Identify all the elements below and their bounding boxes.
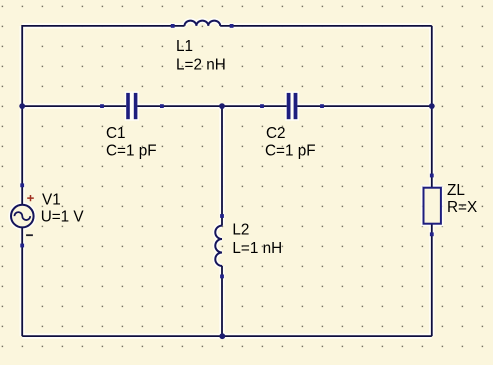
wire top (right of L1): [220, 25, 432, 27]
wire top (left of L1): [22, 25, 184, 27]
port ZL top: [430, 174, 434, 178]
svg-text:C1: C1: [106, 125, 126, 142]
svg-text:ZL: ZL: [447, 182, 465, 199]
wire bottom: [22, 335, 432, 337]
white halo under all strokes: [11, 21, 441, 337]
port C1 right: [160, 104, 164, 108]
inductor L2 coil: [215, 226, 222, 266]
wire middle (right of C2): [297, 105, 431, 107]
source V1 plus sign: [27, 195, 34, 201]
junction node right-middle: [429, 103, 435, 109]
wire center vertical (above L2): [221, 106, 223, 226]
port L1 right: [230, 24, 234, 28]
svg-text:L=1 nH: L=1 nH: [232, 240, 282, 257]
svg-text:R=X: R=X: [447, 199, 477, 216]
port C2 right: [320, 104, 324, 108]
wire right (below ZL): [431, 224, 433, 336]
svg-text:L=2 nH: L=2 nH: [176, 56, 226, 73]
source V1 circle: [11, 205, 34, 228]
wire center vertical (below L2): [221, 266, 223, 336]
port C1 left: [100, 104, 104, 108]
source V1 sine: [14, 212, 30, 220]
capacitor C2 plates: [287, 93, 298, 119]
wire right (above ZL): [431, 26, 433, 188]
terminal squares: [20, 24, 433, 278]
junction node center-bottom: [219, 333, 225, 339]
wire middle (C1 to C2): [137, 105, 286, 107]
svg-text:C2: C2: [266, 125, 286, 142]
svg-text:L2: L2: [232, 222, 249, 239]
port V1 top: [20, 183, 24, 187]
svg-text:C=1 pF: C=1 pF: [106, 142, 157, 159]
resistor ZL body: [424, 188, 441, 224]
svg-text:U=1 V: U=1 V: [41, 209, 85, 226]
source V1 minus sign: [26, 234, 33, 236]
port L2 top: [220, 214, 224, 218]
port L1 left: [171, 24, 175, 28]
port L2 bottom: [220, 275, 224, 279]
svg-text:C=1 pF: C=1 pF: [265, 142, 316, 159]
junction node left-middle: [19, 103, 25, 109]
svg-text:V1: V1: [42, 192, 61, 209]
port ZL bottom: [430, 232, 434, 236]
port V1 bottom: [20, 244, 24, 248]
wire middle (left of C1): [22, 105, 126, 107]
wire left (above V1): [21, 25, 23, 205]
inductor L1 coil: [185, 21, 221, 26]
svg-text:L1: L1: [176, 38, 193, 55]
port C2 left: [260, 104, 264, 108]
wire left (below V1): [21, 228, 23, 337]
junction node center-middle: [219, 103, 225, 109]
capacitor C1 plates: [126, 93, 137, 119]
